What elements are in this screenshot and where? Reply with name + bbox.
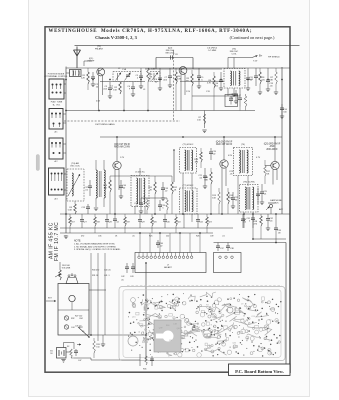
wire T7 leads: [183, 214, 185, 228]
terminal block TB2: [49, 109, 63, 130]
svg-text:WESTINGHOUSE Models CR705A, H: WESTINGHOUSE Models CR705A, H-975XLNA, R…: [49, 29, 253, 34]
capacitor C2: [92, 72, 94, 77]
svg-text:0.5V: 0.5V: [96, 101, 101, 103]
PCB extra pads: [218, 327, 219, 328]
svg-text:220: 220: [166, 236, 169, 238]
variable cap C1B dashed box: [150, 72, 160, 82]
svg-text:C47: C47: [78, 360, 81, 362]
wire Q2 legs: [180, 74, 182, 110]
PCB upper dashed boundary: [127, 285, 282, 287]
transistor Q2: [179, 67, 187, 75]
svg-text:.5-7 MMF: .5-7 MMF: [208, 50, 217, 52]
resistor R7c: [244, 96, 247, 107]
wire L6 leads: [134, 207, 136, 215]
ground under C13: [266, 88, 270, 90]
wire block to drops: [89, 289, 106, 291]
svg-text:C29: C29: [141, 222, 144, 224]
capacitor C3: [109, 82, 111, 88]
svg-text:C27: C27: [83, 222, 86, 224]
trimmer pots: [64, 316, 68, 320]
schematic border frame: [45, 27, 290, 372]
capacitor C29: [139, 214, 141, 220]
svg-text:C42: C42: [121, 276, 124, 278]
svg-text:(T8) 10.7MC: (T8) 10.7MC: [243, 182, 255, 184]
oscillator coil T3 dashed box: [224, 69, 245, 89]
wire vol drops: [90, 253, 92, 335]
resistor R28: [70, 349, 73, 358]
svg-text:C43: C43: [130, 276, 133, 278]
svg-text:AT TERMINAL CONTROL: AT TERMINAL CONTROL: [44, 75, 68, 78]
PCB outer boundary: [119, 287, 285, 361]
svg-text:S2: S2: [67, 346, 69, 348]
svg-text:C39: C39: [210, 236, 213, 238]
resistor R18: [94, 217, 97, 226]
wire IF bus: [100, 136, 282, 138]
svg-text:2.2K: 2.2K: [81, 77, 86, 79]
resistor R21: [260, 216, 263, 226]
wire battery drop: [145, 263, 147, 360]
resistor R11b: [146, 200, 149, 210]
capacitor C32: [267, 214, 269, 219]
wire T2 to ground: [123, 82, 125, 111]
PCB speaker ring: [128, 336, 138, 346]
IF transformer T7 dashed box: [180, 188, 198, 214]
svg-text:C45 2G: C45 2G: [75, 326, 82, 328]
svg-text:68K: 68K: [204, 179, 208, 181]
ground under C2: [91, 83, 95, 85]
svg-text:1. ALL VOLTAGES MEASURED WITH: 1. ALL VOLTAGES MEASURED WITH VTVM,: [74, 243, 115, 246]
B+ arrow: [252, 56, 258, 58]
svg-text:0.7V: 0.7V: [256, 157, 261, 159]
wire Q5 collector: [274, 137, 276, 161]
variable cap C1B: [152, 73, 159, 81]
resistor R16: [227, 192, 230, 204]
capacitor C43: [132, 263, 134, 267]
capacitor C31: [252, 214, 254, 218]
wire bottom drops: [97, 335, 99, 341]
resistor R5: [191, 74, 194, 86]
resistor R17: [69, 217, 72, 226]
ground under C3: [108, 95, 112, 97]
tuning assembly box: [58, 284, 89, 336]
svg-text:0.9V: 0.9V: [228, 155, 233, 157]
svg-text:470: 470: [81, 236, 84, 238]
capacitor C36: [157, 240, 159, 243]
wire secondary row A left: [100, 81, 145, 83]
svg-text:R26: R26: [196, 236, 199, 238]
ground under C10: [219, 87, 223, 89]
svg-text:JACK: JACK: [273, 201, 279, 204]
resistor R33: [93, 341, 96, 353]
resistor R7d: [203, 114, 206, 124]
wire T6 leads: [237, 176, 239, 215]
tuning capacitor C1A dashed box: [113, 72, 141, 82]
svg-text:R19: R19: [126, 222, 129, 224]
svg-text:C1B: C1B: [151, 69, 156, 71]
wire stub T3 top: [233, 58, 235, 69]
svg-text:FM IF 10.7 MC: FM IF 10.7 MC: [54, 222, 60, 261]
PCB transformer shield: [154, 320, 181, 352]
PCB trimmer ring: [227, 307, 233, 313]
ground under C6: [158, 87, 162, 89]
svg-text:C1A: C1A: [122, 68, 127, 71]
svg-text:(Continued on next page.): (Continued on next page.): [230, 35, 275, 40]
label T3 wires: [233, 88, 235, 94]
resistor R17b: [264, 166, 267, 176]
wire main top bus: [66, 67, 290, 69]
IF transformer T8 dashed box: [240, 185, 259, 213]
wire avc bus: [253, 238, 286, 240]
capacitor C16: [120, 180, 122, 186]
resistor R11: [154, 182, 157, 194]
svg-text:R25: R25: [149, 236, 152, 238]
transistor Q4: [220, 160, 228, 168]
FM section dashed divider: [173, 50, 175, 121]
PCB pot ring: [203, 330, 211, 338]
header rule: [75, 44, 300, 46]
capacitor C20a: [140, 198, 142, 203]
capacitor C20b: [159, 200, 161, 205]
svg-text:Chassis V-2508-1, 2, 3: Chassis V-2508-1, 2, 3: [95, 35, 137, 40]
resistor R10: [109, 180, 112, 192]
svg-text:6.8K: 6.8K: [177, 78, 182, 80]
capacitor C7: [169, 68, 171, 76]
wire pcb right vertical: [285, 243, 287, 373]
transformer L5: [96, 170, 97, 198]
wire B+ feed: [228, 57, 252, 59]
wire mid return bus: [66, 110, 255, 112]
svg-text:B+ VOL: B+ VOL: [53, 104, 62, 106]
capacitor C38: [227, 243, 229, 247]
wire switch bus: [89, 334, 146, 336]
PCB solder pads: [191, 300, 193, 302]
capacitor C12c: [255, 68, 257, 76]
svg-text:1.2V: 1.2V: [120, 157, 125, 159]
output transformer turret: [66, 278, 78, 284]
wire Q4 legs: [221, 168, 223, 214]
svg-text:AND AM CONV: AND AM CONV: [114, 145, 131, 148]
svg-text:B+: B+: [259, 54, 263, 58]
ground under C11: [246, 87, 250, 89]
component cluster lower left of PCB: [139, 354, 141, 366]
svg-text:RF SHIELD: RF SHIELD: [268, 57, 280, 59]
wire TB3 stub: [63, 143, 66, 145]
svg-text:FM TUNING GANG: FM TUNING GANG: [95, 123, 114, 126]
wire T8 leads: [243, 212, 245, 228]
svg-text:R23: R23: [208, 222, 211, 224]
PCB inner boundary: [123, 290, 281, 358]
svg-text:1.5V: 1.5V: [186, 91, 191, 93]
resistor R2: [119, 82, 122, 94]
resistor R9: [74, 204, 77, 214]
capacitor C46: [75, 349, 77, 351]
wire tuning gang dashed: [64, 120, 180, 122]
edge connector CN1: [135, 253, 206, 273]
svg-text:VOLUME: VOLUME: [62, 268, 71, 270]
IF transformer L6 dashed box: [131, 176, 149, 207]
wire battery to board: [66, 351, 71, 353]
svg-text:COIL: COIL: [231, 54, 237, 56]
svg-text:5.6K: 5.6K: [68, 209, 73, 211]
svg-text:.05: .05: [132, 236, 135, 238]
wire drops to connector: [139, 233, 141, 253]
svg-text:.02: .02: [64, 236, 67, 238]
transistor Q3: [113, 161, 121, 169]
resistor R6: [213, 76, 216, 88]
wire Q1 emitter: [98, 76, 100, 111]
capacitor C22: [232, 192, 234, 198]
ground under R8: [258, 91, 262, 93]
capacitor C33: [275, 214, 277, 228]
tuning shaft circle: [69, 295, 75, 301]
svg-text:OSC COIL: OSC COIL: [70, 166, 81, 168]
wire TB2 stub: [63, 113, 66, 115]
PCB copper traces: [177, 326, 193, 339]
svg-text:AM ANT: AM ANT: [164, 266, 172, 269]
FM antenna: [76, 47, 78, 69]
ground under C5: [139, 85, 143, 87]
transistor Q5: [271, 161, 279, 169]
capacitor C17: [89, 180, 91, 186]
resistor R14: [210, 172, 213, 184]
svg-text:PLAY TUNE: PLAY TUNE: [51, 101, 63, 104]
battery B1: [57, 348, 67, 359]
IF transformer T5 dashed box: [180, 148, 197, 174]
capacitor C37: [217, 243, 219, 247]
svg-text:R20: R20: [153, 222, 156, 224]
PCB extra traces: [268, 351, 272, 355]
capacitor C13: [267, 68, 269, 80]
wire lower bus A: [60, 213, 290, 215]
wire junction dots: [65, 79, 67, 81]
IF frequency note (rotated): [49, 222, 61, 261]
IF shield wire: [173, 150, 175, 182]
svg-text:OSC: OSC: [79, 318, 84, 320]
edge connector CN1 pins: [138, 253, 140, 256]
capacitor C18: [162, 182, 164, 188]
capacitor C15b: [230, 97, 232, 100]
svg-text:C34: C34: [199, 222, 202, 224]
capacitor C21: [204, 168, 206, 176]
wire right trunk vertical: [281, 67, 283, 214]
svg-text:.02: .02: [116, 222, 119, 224]
wire T3 leads: [227, 88, 229, 96]
resistor R8: [259, 72, 262, 84]
svg-text:.01: .01: [222, 236, 225, 238]
capacitor C4: [132, 82, 134, 87]
wire TB4 stub: [64, 173, 66, 175]
capacitor C6: [159, 68, 161, 78]
wire battery loop: [63, 343, 65, 348]
scan binder mark: [36, 155, 39, 171]
resistor R19: [124, 217, 127, 226]
IF transformer T6 dashed box: [234, 148, 253, 176]
switch S1 blade: [78, 327, 89, 337]
resistor R1: [87, 72, 90, 84]
resistor R12: [171, 182, 174, 194]
resistor R12b: [166, 200, 169, 210]
svg-text:(T5) 455KC: (T5) 455KC: [183, 144, 194, 146]
wire T1 stub: [83, 61, 85, 66]
wire TB1 stub: [64, 83, 66, 85]
PCB caption box: [229, 364, 291, 375]
capacitor C30: [164, 214, 166, 220]
resistor R15: [218, 192, 221, 204]
capacitor C28: [106, 214, 108, 220]
wire short bus q2: [192, 95, 240, 97]
svg-text:NOTE:: NOTE:: [74, 241, 81, 243]
svg-text:C30: C30: [166, 222, 169, 224]
capacitor C42: [126, 263, 128, 267]
capacitor C27: [81, 214, 83, 220]
capacitor C28b: [114, 214, 116, 219]
resistor R4: [175, 72, 178, 84]
wire left trunk vertical: [65, 68, 67, 233]
svg-text:AND 1ST AM IF: AND 1ST AM IF: [216, 143, 233, 146]
capacitor C24: [257, 188, 259, 194]
PCB corner pad: [131, 298, 136, 303]
svg-text:2ND AM IF: 2ND AM IF: [266, 148, 278, 151]
svg-text:L6 455 KC: L6 455 KC: [135, 172, 145, 174]
wire lower bus B: [60, 227, 233, 229]
svg-text:4.7K: 4.7K: [207, 82, 212, 84]
svg-text:150: 150: [96, 346, 99, 348]
svg-text:15K: 15K: [113, 89, 117, 91]
ground under C9: [197, 85, 201, 87]
feedback loop wire: [225, 95, 238, 107]
svg-text:7.5V: 7.5V: [253, 61, 258, 63]
svg-text:.05: .05: [121, 280, 124, 282]
terminal block TB3: [49, 138, 63, 159]
capacitor C12b: [235, 90, 237, 94]
tuning inner divider: [58, 309, 89, 311]
ground fm section left: [64, 235, 68, 237]
svg-text:MIX 2SA: MIX 2SA: [166, 52, 175, 55]
svg-text:P.C. Board Bottom View.: P.C. Board Bottom View.: [235, 369, 284, 374]
capacitor C26: [242, 214, 244, 219]
svg-text:1.5K: 1.5K: [197, 119, 202, 121]
ground osc return: [202, 129, 206, 131]
volume control R24: [59, 262, 61, 270]
capacitor C25: [261, 184, 263, 192]
earphone jack J1: [269, 204, 272, 207]
wire IF mid bus: [110, 175, 172, 177]
svg-text:18K: 18K: [269, 79, 273, 81]
resistor R20: [151, 217, 154, 226]
wire secondary row A mid: [180, 80, 224, 82]
svg-text:2. NO SIGNAL, AND LOW SUPPLY.: 2. NO SIGNAL, AND LOW SUPPLY. OTHERW.: [74, 245, 116, 248]
svg-text:(T6): (T6): [241, 144, 245, 146]
resistor R23: [206, 217, 209, 226]
wire pcb top bus: [214, 242, 287, 244]
svg-text:C35: C35: [98, 236, 101, 238]
svg-text:C44: C44: [71, 327, 74, 329]
ground battery: [61, 359, 65, 361]
capacitor C19: [210, 148, 212, 152]
wire Q3 collector: [116, 137, 118, 161]
wire Q3 emitter: [114, 170, 116, 215]
svg-text:R17: R17: [71, 222, 74, 224]
AM osc coil T4 dashed box: [67, 169, 84, 201]
capacitor C16b: [239, 94, 241, 98]
svg-text:C28: C28: [108, 222, 111, 224]
capacitor C10: [220, 72, 222, 80]
svg-text:R22: R22: [177, 222, 180, 224]
svg-text:FM ANT: FM ANT: [95, 47, 104, 50]
variable cap C1A: [116, 73, 122, 81]
wire lower bus C: [60, 232, 213, 234]
antenna coil T1: [70, 70, 82, 77]
edge connector CN2: [214, 253, 242, 273]
svg-text:10K: 10K: [212, 197, 216, 199]
capacitor C15: [87, 204, 89, 207]
terminal block TB1: [49, 79, 64, 99]
svg-text:(T7) 455KC: (T7) 455KC: [183, 185, 194, 187]
svg-text:2.1V: 2.1V: [229, 98, 234, 100]
terminal block TB2 stems: [53, 124, 55, 127]
capacitor C11: [247, 68, 249, 78]
capacitor C14: [281, 104, 283, 108]
wire osc feedback top: [156, 57, 193, 59]
capacitor C9: [198, 68, 200, 76]
wire mid stub: [141, 197, 167, 199]
capacitor C34: [197, 214, 199, 220]
svg-text:R32: R32: [71, 318, 74, 320]
svg-text:R35: R35: [143, 369, 146, 371]
wire fm osc bus: [145, 68, 222, 70]
capacitor C8: [170, 55, 172, 59]
wire T5 leads: [182, 173, 184, 214]
wire osc return: [204, 111, 206, 129]
wire ext ant: [46, 300, 56, 302]
wire Q5 legs: [272, 170, 274, 185]
terminal block TB4: [49, 168, 65, 195]
wire R13: [200, 152, 203, 162]
svg-text:R18: R18: [96, 222, 99, 224]
svg-text:AND: AND: [270, 145, 275, 148]
ground under L5: [94, 207, 98, 209]
transistor Q1: [97, 68, 105, 76]
resistor R3: [147, 68, 150, 82]
ground under C7: [168, 84, 172, 86]
resistor R22: [175, 217, 178, 226]
capacitor C5: [140, 68, 142, 76]
svg-text:AVC: AVC: [279, 208, 284, 211]
svg-text:R27 120: R27 120: [75, 316, 82, 318]
resistor R7b: [275, 72, 278, 84]
wire Q5 base stub: [265, 165, 271, 167]
wire Q4 collector: [223, 137, 225, 160]
svg-text:3. SPECIAL LACQ. LOCATED ON TO: 3. SPECIAL LACQ. LOCATED ON TOP OF BOARD…: [74, 248, 121, 251]
